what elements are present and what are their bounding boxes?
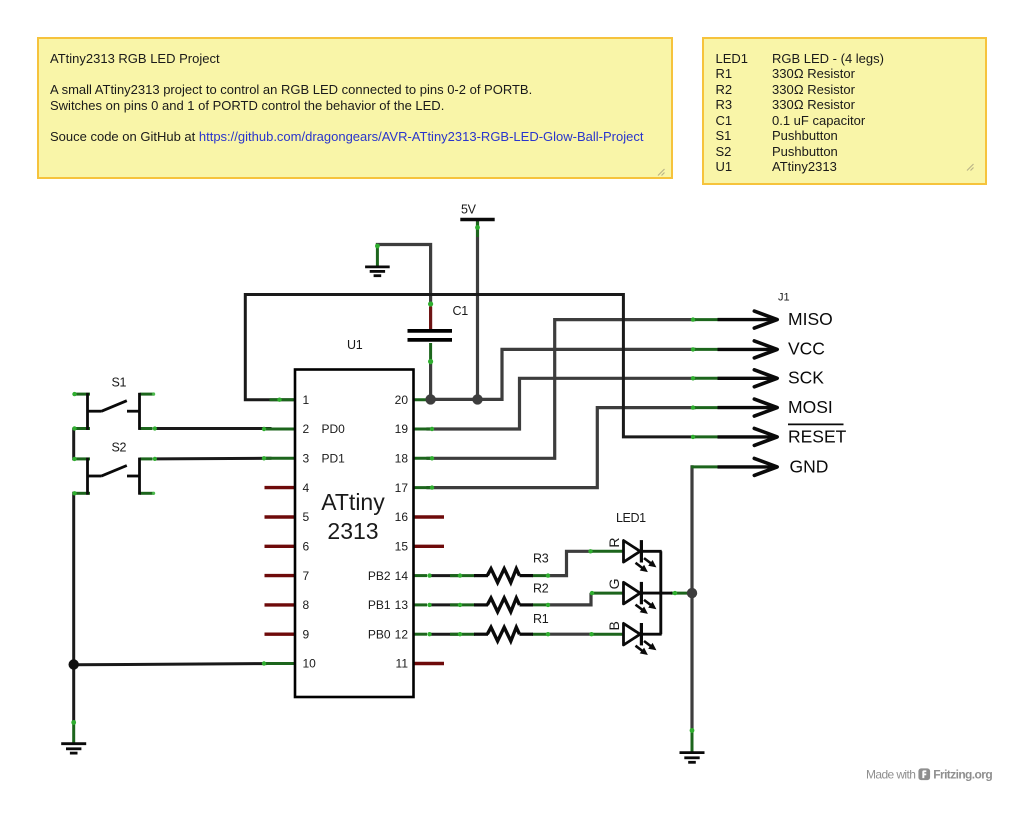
svg-text:15: 15	[395, 540, 409, 554]
svg-text:2: 2	[303, 422, 310, 436]
svg-text:G: G	[606, 579, 622, 590]
svg-text:ATtiny: ATtiny	[321, 489, 385, 515]
svg-text:U1: U1	[347, 338, 363, 352]
svg-text:3: 3	[303, 452, 310, 466]
svg-text:R1: R1	[533, 612, 549, 626]
svg-text:5V: 5V	[461, 203, 477, 217]
svg-text:RESET: RESET	[788, 426, 847, 446]
svg-text:10: 10	[303, 657, 317, 671]
svg-text:9: 9	[303, 627, 310, 641]
svg-text:20: 20	[395, 393, 409, 407]
svg-text:R2: R2	[533, 582, 549, 596]
svg-text:C1: C1	[453, 304, 469, 318]
svg-text:VCC: VCC	[788, 338, 825, 358]
svg-text:MISO: MISO	[788, 309, 833, 329]
svg-text:12: 12	[395, 627, 409, 641]
svg-text:S1: S1	[112, 376, 127, 390]
svg-text:MOSI: MOSI	[788, 397, 833, 417]
svg-text:GND: GND	[790, 456, 829, 476]
svg-text:7: 7	[303, 569, 310, 583]
svg-text:8: 8	[303, 598, 310, 612]
svg-text:PB2: PB2	[368, 569, 391, 583]
svg-text:18: 18	[395, 452, 409, 466]
svg-text:SCK: SCK	[788, 368, 824, 388]
svg-text:R3: R3	[533, 552, 549, 566]
svg-text:4: 4	[303, 481, 310, 495]
svg-text:PB1: PB1	[368, 598, 391, 612]
svg-text:B: B	[606, 621, 622, 630]
svg-text:PD1: PD1	[322, 452, 346, 466]
svg-text:2313: 2313	[327, 518, 378, 544]
svg-text:PD0: PD0	[322, 422, 346, 436]
svg-text:5: 5	[303, 510, 310, 524]
svg-text:R: R	[606, 537, 622, 547]
svg-text:PB0: PB0	[368, 627, 391, 641]
svg-text:S2: S2	[112, 441, 127, 455]
svg-text:16: 16	[395, 510, 409, 524]
svg-text:17: 17	[395, 481, 409, 495]
svg-text:19: 19	[395, 422, 409, 436]
svg-text:13: 13	[395, 598, 409, 612]
svg-text:6: 6	[303, 540, 310, 554]
svg-text:J1: J1	[778, 292, 790, 304]
svg-text:1: 1	[303, 393, 310, 407]
svg-text:11: 11	[396, 657, 409, 671]
svg-text:LED1: LED1	[616, 511, 646, 525]
svg-text:14: 14	[395, 569, 409, 583]
